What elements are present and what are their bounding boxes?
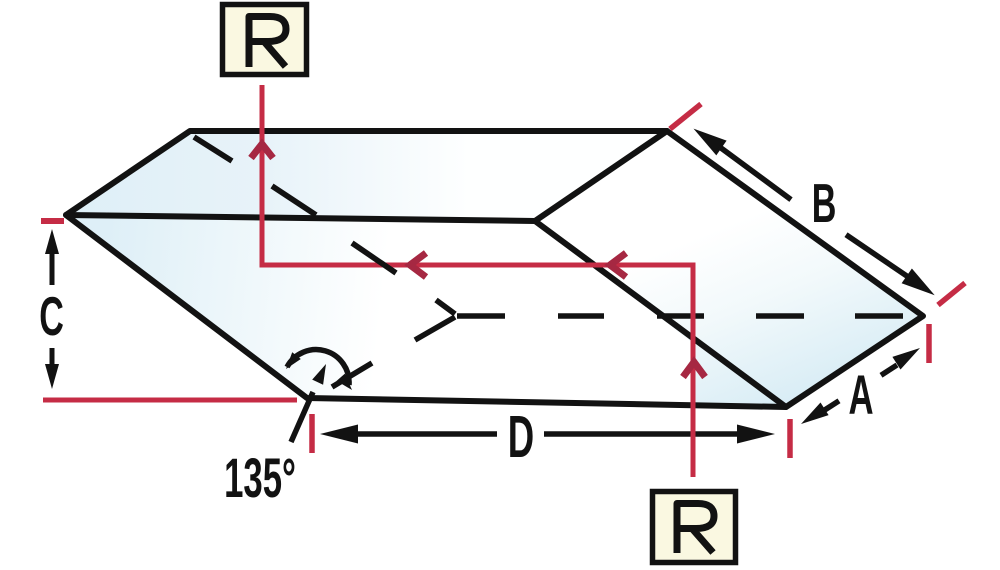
dimension A arrow upper bbox=[881, 365, 897, 375]
R box bottom (entrance label) bbox=[653, 492, 736, 563]
red diagonal tick at E (B dim) bbox=[938, 283, 965, 305]
dimension D arrow right bbox=[544, 431, 740, 437]
ray chevron arrow up (exit beam) bbox=[251, 144, 273, 158]
hidden edge H to BL (dashed) bbox=[332, 317, 455, 387]
edge W to M (front top) bbox=[66, 215, 535, 221]
ray chevron arrow left 2 bbox=[610, 253, 626, 277]
dimension C arrow up bbox=[45, 229, 59, 254]
hidden edge T1 to H (dashed) bbox=[194, 137, 455, 314]
prism outline bbox=[66, 131, 923, 407]
hidden centerline H to E (dashed) bbox=[457, 313, 903, 319]
svg-text:D: D bbox=[508, 405, 534, 470]
dimension B arrow lower bbox=[846, 235, 909, 278]
red ray path bbox=[262, 85, 693, 477]
svg-text:A: A bbox=[848, 364, 873, 427]
R glyph bottom bbox=[677, 504, 714, 554]
angle leader line from 135 label bbox=[291, 392, 313, 442]
dimension D arrow left bbox=[320, 425, 358, 444]
angle arc arrowhead left bbox=[286, 352, 301, 369]
prism front face bbox=[66, 215, 786, 407]
R glyph top bbox=[249, 17, 286, 68]
svg-text:B: B bbox=[812, 173, 837, 234]
dimension C arrow down bbox=[50, 348, 55, 368]
red tick below BR (D dim right / A dim) bbox=[787, 419, 793, 458]
red extension line (C dim bottom) bbox=[43, 398, 297, 403]
edge M to BR (45 deg face) bbox=[535, 221, 786, 407]
ray chevron arrow left 1 bbox=[410, 253, 426, 277]
prism top face bbox=[66, 131, 667, 221]
red diagonal tick at T2 (B dim) bbox=[670, 104, 701, 129]
dimension B arrow upper bbox=[694, 129, 727, 156]
R box top (entrance/exit label) bbox=[223, 5, 307, 75]
red tick at W (C dim top) bbox=[41, 218, 64, 224]
edge M to T2 bbox=[535, 131, 667, 221]
prism right face bbox=[535, 131, 923, 407]
svg-text:135°: 135° bbox=[224, 447, 296, 510]
red tick below BL (D dim left) bbox=[309, 414, 315, 453]
ray chevron arrow up (entry beam) bbox=[683, 362, 705, 377]
angle leader arrowhead bbox=[312, 364, 326, 385]
red tick below E (A dim) bbox=[926, 324, 932, 363]
hidden edge T1 to H dash (over ray) bbox=[352, 243, 396, 273]
angle arc bbox=[287, 350, 349, 385]
angle arc arrowhead right bbox=[337, 374, 352, 390]
svg-text:C: C bbox=[39, 286, 64, 347]
dimension A arrow lower bbox=[801, 403, 829, 425]
